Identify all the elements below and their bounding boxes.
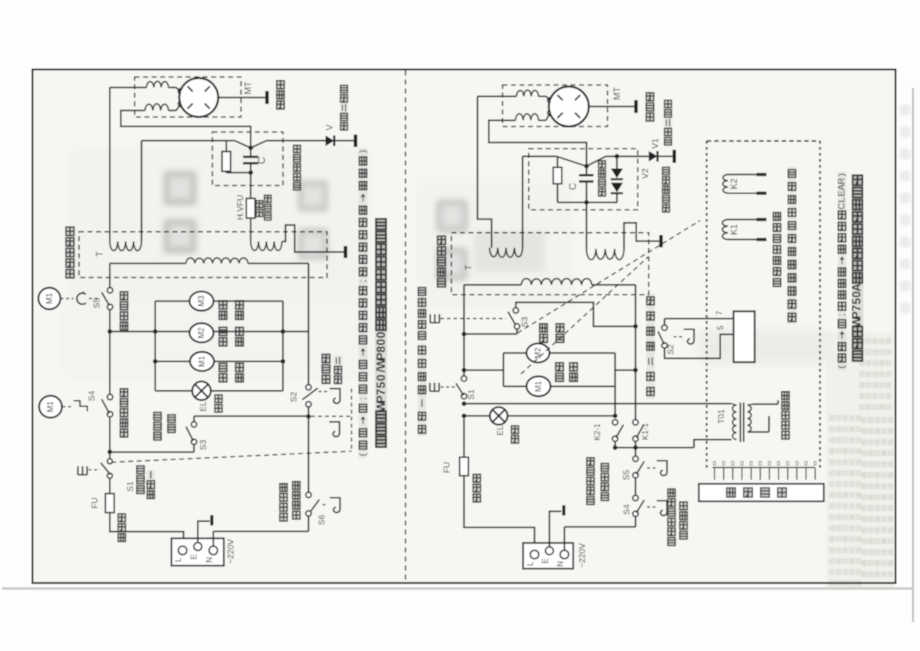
node capacitor bottom (right) [584,200,589,205]
label 转盘 电机 (right) [539,323,564,344]
title 格兰仕WP750/WP800机械式微波炉电路图 [374,218,388,448]
left bus S4 down (left) [109,417,111,460]
wire S3 to S2 bus (left) [194,416,309,422]
label 高压电容器 (left) [293,144,301,191]
label K2 [729,178,739,189]
bleed-through grey blob column left panel a [163,170,197,254]
terminal L (right) [530,550,539,559]
door symbol E at S3 (right) [430,314,439,323]
branch wire to S3 (right) [464,329,517,334]
svg-text:FU: FU [442,462,452,473]
svg-text:E: E [541,558,550,563]
label ~220V (left) [226,539,236,564]
label 风扇 电机 (left) [219,326,244,347]
label EL (right) [495,425,505,436]
node HV cathode junction (left) [248,146,253,151]
svg-text:~220V: ~220V [226,539,236,564]
node HV cathode junction (right) [584,164,589,169]
ladder rail extension down (right) [614,386,616,416]
label 炉灯 (left) [214,394,222,413]
magnetron anode wire and chassis ground (left) [218,91,267,104]
wire S6 to N (left) [308,516,310,532]
label 高压二极管 (right) [664,99,672,146]
label S1 [125,481,135,492]
scan page right edge line [912,88,914,622]
wire filament top to transformer (left) [110,88,147,242]
earth wire terminal E (left) [198,515,212,542]
svg-text:0: 0 [374,338,388,345]
terminal L (left) [178,546,187,555]
svg-text:MT: MT [243,81,253,94]
membrane switch box 薄膜开关 [699,484,824,502]
label L (left) [174,557,183,562]
label pin 5 [716,325,725,330]
HV net wire with V-dip (right) [523,156,649,166]
wire N up (right) [563,527,565,550]
svg-text:0: 0 [374,331,388,338]
svg-text:P: P [374,352,388,360]
label C (right) [568,183,579,190]
wire HV winding to ground (left) [282,225,346,258]
svg-text:7: 7 [374,389,388,396]
transformer HV winding (left) [251,242,282,251]
transformer filament winding (left) [110,242,142,251]
label 风扇 电机 (right) [555,362,578,383]
wire filament bottom to HV node (left) [121,111,251,148]
label N (right) [556,561,565,567]
svg-text:0: 0 [374,374,388,381]
label MT (right) [612,87,622,100]
relay coil K1 [722,220,766,240]
lamp EL 炉灯 (right) [490,407,508,425]
magnetron filament coil bottom (left) [145,104,181,111]
svg-text:V: V [325,124,335,130]
switch S3 turntable (right) [508,308,520,329]
lamp EL 炉灯 (left) [192,382,211,401]
label 转盘 电机 (left) [219,300,244,321]
door linkage long dashed diagonal (left) [111,451,351,462]
svg-text:S3: S3 [198,440,208,451]
switch S5 火力开关 [102,288,113,310]
svg-text:E: E [190,554,199,559]
magnetron MT dashed enclosure (left) [135,77,241,117]
panel divider dashed line [405,71,407,583]
label T (left) [95,251,105,257]
label S6 [316,515,326,526]
label 磁控管 (left) [276,80,285,110]
svg-text:EL: EL [198,401,208,412]
svg-text:C: C [837,203,848,210]
label 定时控制继电器 [788,167,796,258]
svg-text:M2: M2 [534,347,543,359]
bleed-through grey blob column right panel [436,199,469,281]
svg-text:FU: FU [90,497,100,508]
label S4 (right) [622,504,632,515]
magnetron filament coil top (left) [147,81,181,91]
label 门监控 开关 [153,411,175,441]
label 门第一联锁开关 (right) [418,344,426,436]
svg-text:H.VFU: H.VFU [235,195,245,221]
door hook S5 (right) [657,461,667,476]
switch S4 定时器开关 [102,394,113,417]
svg-text:5: 5 [716,325,725,330]
capacitor C (left) [243,148,259,173]
label 定时器开关 [120,388,129,438]
label 低压变压器 [781,391,789,440]
svg-text:V2: V2 [640,168,650,179]
node S3 wire on right bus [633,324,638,329]
svg-text:K2: K2 [729,178,739,189]
branch M3 turntable (left) [155,300,283,302]
wire N to right bus (left) [213,531,308,546]
control board dashed enclosure [707,141,820,471]
wire winding to HV net (right) [522,156,524,248]
relay contact K2-1 [612,420,623,442]
magnetron tube MT (left) [178,78,218,117]
switch S5 cavity thermal (right) [633,450,644,478]
svg-text:M1: M1 [45,292,54,304]
svg-text:L: L [174,557,183,562]
HV capacitor dashed enclosure (left) [212,132,283,186]
label 高压二极管 (left) [340,84,348,131]
label V (left) [325,124,335,130]
node S3 branch junction [108,450,113,455]
linkage dashes E-S1 (right) [441,386,456,388]
branch M1 (right) [503,385,615,387]
label 门监控开关 (right) [418,286,426,341]
label K1 [729,224,739,235]
cam symbol 火力开关 actuator [77,292,86,304]
wire FU to terminal L (left) [110,513,184,547]
svg-text:K2-1: K2-1 [593,423,602,440]
linkage dashes E-S1 [89,469,101,471]
svg-text:V1: V1 [650,138,660,149]
label 火力开关 [120,291,129,331]
diode V HV (left) [326,135,356,148]
door symbol E at S1 (right) [430,383,439,392]
label S5 (right) [621,470,631,481]
terminal N (left) [209,546,218,555]
svg-text:T: T [464,264,474,270]
terminal block (right) [523,543,573,569]
svg-text:): ) [358,150,369,153]
door hook 2 (left) [329,422,339,437]
svg-text:L: L [837,197,848,202]
switch S2 门联锁开关二 [302,385,318,407]
diode V1 HV (right) [649,150,675,163]
label E terminal (left) [190,554,199,559]
svg-text:A: A [852,283,864,291]
linkage step symbol S4 [74,401,88,411]
label S3 (right) [520,317,530,328]
svg-text:T01: T01 [716,409,726,424]
ladder left rail (left) [154,301,156,391]
terminal E (right) [545,547,553,555]
svg-text:8: 8 [374,346,388,353]
svg-text:S6: S6 [316,515,326,526]
node S3 branch (right) [462,332,467,337]
label 炉灯 (right) [511,425,519,444]
label L (right) [526,561,535,566]
relay contact K1-1 [633,420,644,442]
transformer T01 core [740,403,743,443]
label 门联锁 开关二 [322,353,342,384]
linkage dashes M1 to cam (left) [61,298,74,300]
label V2 [640,168,650,179]
motor M1 fan-power symbol (left top) [38,288,60,310]
linkage dash S2-hook (right) [674,336,683,338]
svg-text:5: 5 [374,381,388,388]
svg-text:M1: M1 [46,401,55,413]
svg-text:K1-1: K1-1 [641,423,650,440]
svg-text:;: ; [358,280,369,283]
label K1-1 [641,423,650,440]
svg-text:MT: MT [612,87,622,100]
wire filament bottom to HV node (right) [489,120,587,166]
label 火力控制继电器 [773,211,781,288]
HV capacitor dashed enclosure (right) [529,149,638,210]
linkage dash S6-hook [323,504,329,506]
label 磁控管 (right) [646,92,655,122]
label N (left) [205,557,214,563]
label C (left) [257,157,268,164]
node branch A (right) [462,401,467,406]
wire S4 to N (right) [564,516,635,527]
switch S3 门监控开关 [186,422,197,445]
door hook S6 [330,498,340,513]
lamp branch wire (right) [464,415,615,417]
label V1 [650,138,660,149]
label S3 [198,440,208,451]
magnetron MT dashed enclosure (right) [503,85,608,127]
relay coil K2 [723,175,767,194]
right bus primary down (right) [635,285,637,420]
HV transformer dashed enclosure (left) [79,232,327,278]
node rail-right on bus [281,329,286,334]
svg-text:;: ; [358,397,369,400]
label 熔断器 (right) [473,473,481,503]
magnetron filament coil bottom (right) [516,113,551,120]
wire winding right to HV net (left) [141,141,143,242]
svg-text:M2: M2 [197,327,206,339]
label pin 7 [715,310,724,315]
label H.VFU (left) [235,195,245,221]
scan wash band bottom middle [60,300,380,380]
resistor bleed (right) [553,157,617,202]
svg-text:): ) [837,173,848,176]
node lamp branch right end [613,414,618,419]
wire HV winding right to ground (right) [624,223,661,249]
svg-text:S3: S3 [520,317,530,328]
motor M1 (right) [527,376,551,396]
scan grey wash inside frame [34,71,894,582]
node S3-S2 junction [306,414,311,419]
bleed-through grey column outside frame right [901,105,910,312]
motor M3 转盘电机 (left) [190,292,214,311]
svg-text:S2: S2 [666,344,676,355]
svg-text:N: N [205,557,214,563]
svg-text:K1: K1 [729,224,739,235]
magnetron tube MT (right) [548,87,589,127]
switch S1 门联锁开关一 [101,459,113,478]
door hook S4 (right) [657,501,667,516]
computer board connector [734,311,755,362]
scan page bottom edge line [2,587,914,589]
label FU (right) [442,462,452,473]
label 定时 电机 (left) [219,362,244,383]
scan wash relay band [700,330,828,364]
label 熔断器 (left) [118,513,126,543]
ladder rails (right) [503,353,615,386]
label 磁控管热继电 保护开关 [667,488,687,547]
label K2-1 [593,423,602,440]
HV transformer dashed enclosure (right) [451,233,648,295]
linkage dashes E-S3 (right) [441,318,507,320]
bleed-through grey blob column left panel b [297,180,328,260]
capacitor C (right) [579,166,594,202]
branch lamp EL (left) [155,390,283,392]
label T01 [716,409,726,424]
wire S2 top to pin7 [665,318,734,320]
svg-text:EL: EL [495,425,505,436]
svg-text:R: R [837,177,848,184]
earth wire terminal E (right) [549,505,563,547]
switch S4 magnetron thermal (right) [633,495,644,516]
fuse FU (left) [105,478,114,513]
label S2 (right) [666,344,676,355]
label 高压变压器 (right) [437,235,446,288]
wire filament top to transformer (right) [478,96,517,248]
door hook 1 (left) [330,389,340,404]
motor M1 定时电机 (left) [190,352,214,371]
label S4 [87,391,97,402]
title 格兰仕WP750A电脑式微波炉电路图 [852,174,864,362]
bleed-through grey block right panel [474,231,545,272]
label FU (left) [90,497,100,508]
wire S3 upper to right bus (right) [516,302,636,326]
magnetron filament coil top (right) [517,90,551,100]
label S2 [289,392,299,403]
svg-text:P: P [374,395,388,403]
label ~220V (right) [577,543,587,568]
ladder taps (right) [462,368,638,373]
node main branch left bus [108,329,113,334]
wire primary right bus down to S2 (left) [308,263,310,384]
svg-text:S4: S4 [87,391,97,402]
schematic outer frame [33,70,896,584]
transformer primary winding (right) [464,279,636,285]
label MT (left) [243,81,253,94]
branch wire to S3 (left) [110,445,194,453]
motor M1 door symbol (S4 group) [39,396,62,418]
wire S2 bottom to pin5 [665,334,734,358]
branch M1 timer motor (left) [153,359,285,364]
node lamp branch (right) [462,414,467,419]
bleed-through faint table rows bottom right [830,339,893,586]
wire S5-S4 (right) [635,478,637,496]
scan wash right margin [826,332,894,588]
svg-text:S2: S2 [289,392,299,403]
linkage dashes M1-S4 [63,406,73,408]
label 高压电容 (right) [598,160,606,197]
node rail-left on bus [153,329,158,334]
door linkage vertical dashed (left) [351,389,353,452]
scan wash band left panel [70,145,370,305]
linkage dash S5-hook (right) [647,467,656,469]
label T (right) [464,264,474,270]
transformer HV winding (right) [587,249,625,260]
svg-text:C: C [568,183,579,190]
svg-text:S4: S4 [622,504,632,515]
terminal block (left) [171,538,223,565]
terminal N (right) [560,550,569,559]
magnetron anode wire and chassis ground (right) [589,100,636,113]
svg-text:M1: M1 [198,355,207,367]
terminal E (left) [194,543,202,551]
svg-text:N: N [556,561,565,567]
membrane switch comb [713,462,817,480]
label S5 [92,298,102,309]
title note (炉门→开...) (right) [837,172,848,370]
HV net wire with V-dip (left) [142,141,326,148]
switch S2 door interlock 2 (right) [658,319,667,348]
door linkage horizontal dashed (left) [311,415,350,417]
svg-text:L: L [526,561,535,566]
door hook S2 (right) [684,329,694,344]
left bus S5 to S4 (left) [109,310,111,395]
door linkage diagonal A (right) [518,221,701,334]
wire primary left to S5 (left) [109,263,111,287]
relay contacts common wire [613,440,732,450]
svg-text:M3: M3 [197,295,206,307]
branch wire to T01 primary (right) [464,403,732,405]
label 电脑控制板 [788,258,797,324]
linkage dash S2-hook1 [319,391,329,393]
label 门联锁 开关一 [136,465,155,500]
title note (炉门→关...) (left) [358,148,369,458]
node capacitor bottom (left) [248,170,253,175]
svg-text:M1: M1 [534,380,543,392]
main bus wire (left) [110,331,309,333]
label 高压 熔断器 (left) [256,194,272,221]
S2 bus lower segment (left) [308,407,310,492]
fuse FU (right) [460,418,469,475]
svg-text:S5: S5 [92,298,102,309]
svg-text:C: C [257,157,268,164]
switch S6 thermal protector [306,492,320,516]
door linkage diagonal B (right) [521,257,648,374]
branch M2 fan (right) [503,352,615,354]
transformer T01 secondary [748,400,779,432]
transformer filament winding (right) [490,248,523,258]
ladder right rail (left) [282,301,284,391]
door symbol E at S1 [78,466,87,475]
transformer T01 primary [732,404,737,440]
surge suppressor V2 [611,156,623,202]
transformer primary winding (left) [110,258,309,263]
label 浪涌抑制器 [662,166,670,213]
svg-text:;: ; [837,314,848,317]
scan wash band right panel [415,180,575,310]
label S1 (right) [466,389,476,400]
svg-text:S5: S5 [621,470,631,481]
HV fuse H.V.FU (left) [246,173,255,242]
node V2 tap [615,154,620,159]
label 磁控管热 保护开关 (left) [279,481,300,522]
svg-text:S1: S1 [125,481,135,492]
wire FU to terminal L (right) [464,476,535,551]
svg-text:~220V: ~220V [577,543,587,568]
